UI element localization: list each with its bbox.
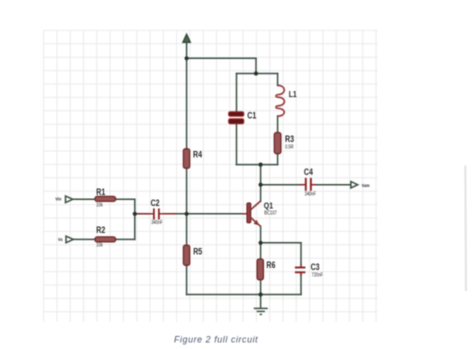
wire: tank top [237, 73, 278, 75]
node: ground rail [259, 292, 263, 296]
wire: emitter column [260, 226, 262, 294]
terminal Vam [351, 182, 358, 188]
svg-text:R3: R3 [285, 134, 294, 144]
resistor R2 [95, 237, 116, 242]
capacitor C1 [229, 112, 244, 124]
terminal Vin1 [66, 196, 73, 203]
svg-text:340nF: 340nF [305, 191, 317, 197]
wire: left power rail vertical [186, 42, 188, 294]
wire: tank bottom to collector column [260, 165, 262, 202]
wire: C2 to base rail [164, 213, 243, 215]
svg-text:C1: C1 [247, 110, 256, 120]
svg-text:R5: R5 [193, 247, 202, 257]
capacitor C3 [295, 264, 306, 276]
emitter arrow [254, 220, 259, 225]
svg-text:C3: C3 [311, 262, 320, 272]
node: power rail [185, 56, 189, 60]
node: tank top [254, 71, 258, 75]
capacitor C4 [300, 178, 316, 191]
svg-text:10k: 10k [96, 202, 103, 208]
collector line [251, 201, 261, 210]
node: C4 tap [259, 183, 263, 187]
wire: bottom rail [187, 294, 301, 296]
base bar [247, 203, 251, 223]
svg-text:L1: L1 [289, 89, 297, 99]
wire: tank left upper (to C1) [236, 74, 238, 112]
ground [254, 308, 268, 314]
capacitor C2 [138, 208, 176, 219]
transistor Q1 [243, 201, 261, 226]
base pin [243, 213, 247, 215]
wire: Vin2 to R2 [73, 238, 95, 240]
svg-text:Vin: Vin [55, 196, 61, 202]
resistor R5 [183, 245, 189, 265]
wire: emitter node to C3 branch [261, 242, 301, 244]
node: base rail [185, 212, 189, 216]
wire: L1 to R3 [277, 116, 279, 133]
svg-text:10k: 10k [96, 242, 103, 248]
svg-text:Figure 2 full circuit: Figure 2 full circuit [174, 335, 258, 345]
wire: Vin1 to R1 [73, 198, 95, 200]
resistor R6 [257, 259, 263, 280]
resistor R1 [95, 196, 116, 201]
node: emitter [259, 241, 263, 245]
svg-text:R2: R2 [96, 225, 105, 235]
wire: C3 branch upper [300, 243, 302, 264]
wire: ground stub [260, 295, 262, 309]
terminal Vin2 [66, 236, 73, 243]
wire: C4 node to C4 left [261, 184, 301, 186]
wire: tank right upper (to L1) [277, 74, 279, 86]
power arrow [183, 34, 190, 42]
svg-text:340nF: 340nF [151, 220, 163, 226]
wire: C3 branch lower [300, 274, 302, 295]
node: summing [133, 212, 137, 216]
inductor L1 [276, 85, 284, 116]
wire: R2 corner up [134, 214, 136, 240]
wire: tank bottom [237, 164, 278, 166]
svg-text:720nF: 720nF [312, 272, 324, 278]
wire: R1 to corner [116, 198, 135, 200]
page edge line [464, 166, 467, 292]
svg-text:R1: R1 [96, 187, 105, 197]
wire: tank left lower (from C1) [236, 124, 238, 165]
wire: drop to tank top [255, 58, 257, 73]
wire: C4 right to output [316, 184, 352, 186]
emitter line [251, 218, 261, 227]
node: tank bottom [259, 163, 263, 167]
svg-text:Vs: Vs [58, 236, 63, 242]
svg-text:0.5R: 0.5R [285, 144, 294, 150]
junction dots [133, 56, 263, 296]
svg-text:R4: R4 [193, 149, 202, 159]
resistor R3 [274, 133, 281, 154]
svg-text:C2: C2 [151, 198, 160, 208]
wire: R1 corner down [134, 199, 136, 214]
svg-text:BC107: BC107 [264, 210, 277, 216]
svg-text:C4: C4 [304, 167, 313, 177]
wire: summing node to C2 [135, 213, 149, 215]
resistor R4 [183, 149, 189, 168]
wire: R3 to tank bottom [277, 154, 279, 165]
svg-text:R6: R6 [266, 260, 275, 270]
svg-text:Vam: Vam [362, 182, 370, 188]
wire: R2 to corner [116, 238, 135, 240]
wire: power node to tank top horizontal [187, 57, 256, 59]
